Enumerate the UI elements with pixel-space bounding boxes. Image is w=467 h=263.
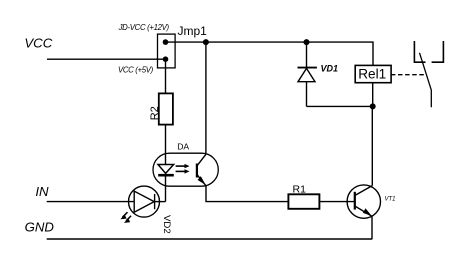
svg-text:DA: DA — [177, 142, 189, 152]
LED VD2 body circle — [129, 186, 160, 217]
wire Rel1 bottom to junction — [372, 83, 374, 107]
wire VD2 cathode up to opto LED cathode — [154, 201, 165, 203]
svg-text:IN: IN — [35, 184, 49, 199]
wire R2 to opto LED anode — [165, 125, 167, 165]
wire opto emitter down and right to R1 — [206, 186, 288, 202]
label DA — [177, 142, 189, 152]
svg-text:Jmp1: Jmp1 — [178, 24, 208, 38]
relay Rel1 coil box — [355, 65, 391, 82]
wire VCC to jumper — [47, 58, 166, 60]
jumper Jmp1 pin 2 (VCC +5V) — [163, 56, 169, 62]
wire top rail from Jmp1 pin1 to relay corner — [166, 42, 374, 65]
svg-text:JD-VCC (+12V): JD-VCC (+12V) — [118, 23, 170, 32]
svg-text:VD1: VD1 — [321, 64, 339, 74]
transistor VT1 — [347, 185, 380, 218]
LED VD2 emission arrows — [120, 212, 131, 223]
resistor R2 body — [159, 93, 173, 124]
relay contact fixed terminal right — [432, 41, 444, 62]
junction at top rail and VD1 — [304, 39, 310, 45]
svg-text:VD2: VD2 — [161, 215, 172, 234]
label JD-VCC (+12V) — [118, 23, 170, 32]
label VT1 — [385, 197, 396, 203]
relay actuation dashed link — [391, 74, 424, 76]
jumper Jmp1 body — [158, 34, 176, 68]
svg-text:Rel1: Rel1 — [358, 66, 386, 81]
junction at top rail and opto collector — [203, 39, 209, 45]
svg-text:VCC (+5V): VCC (+5V) — [118, 65, 154, 74]
wire junction down to VT1 collector — [371, 106, 373, 185]
relay contact armature — [420, 53, 432, 108]
diode VD1 — [298, 42, 317, 106]
wire GND rail — [47, 238, 373, 240]
wire VD1 anode to junction — [307, 105, 373, 107]
node IN label — [35, 184, 49, 199]
junction VD1/Rel1/collector — [370, 103, 376, 109]
svg-text:R1: R1 — [293, 184, 307, 196]
node VCC label — [24, 35, 52, 50]
relay contact fixed terminal left — [414, 41, 425, 62]
node GND label — [25, 219, 55, 234]
svg-text:VCC: VCC — [24, 35, 52, 50]
label Jmp1 — [178, 24, 208, 38]
wire R1 to VT1 base — [319, 201, 354, 203]
opto-coupler DA body — [153, 153, 218, 186]
label VD2 — [161, 215, 172, 234]
label R1 — [293, 184, 307, 196]
svg-text:VT1: VT1 — [385, 197, 396, 203]
opto DA phototransistor — [197, 154, 206, 186]
label VD1 — [321, 64, 339, 74]
resistor R1 body — [288, 194, 319, 209]
LED VD2 diode symbol — [134, 191, 154, 212]
wire Jmp1 pin2 down to R2 — [165, 59, 167, 93]
opto DA light arrows — [176, 164, 190, 174]
svg-text:GND: GND — [25, 219, 55, 234]
opto DA internal LED — [158, 165, 174, 202]
label R2 — [149, 106, 161, 120]
wire IN to VD2 — [47, 201, 135, 203]
label VCC (+5V) — [118, 65, 154, 74]
svg-text:R2: R2 — [149, 106, 161, 120]
jumper Jmp1 pin 1 (JD-VCC) — [163, 39, 169, 45]
label Rel1 — [358, 66, 386, 81]
wire VT1 emitter to GND rail — [371, 216, 373, 239]
wire top rail down to opto collector — [205, 42, 207, 153]
